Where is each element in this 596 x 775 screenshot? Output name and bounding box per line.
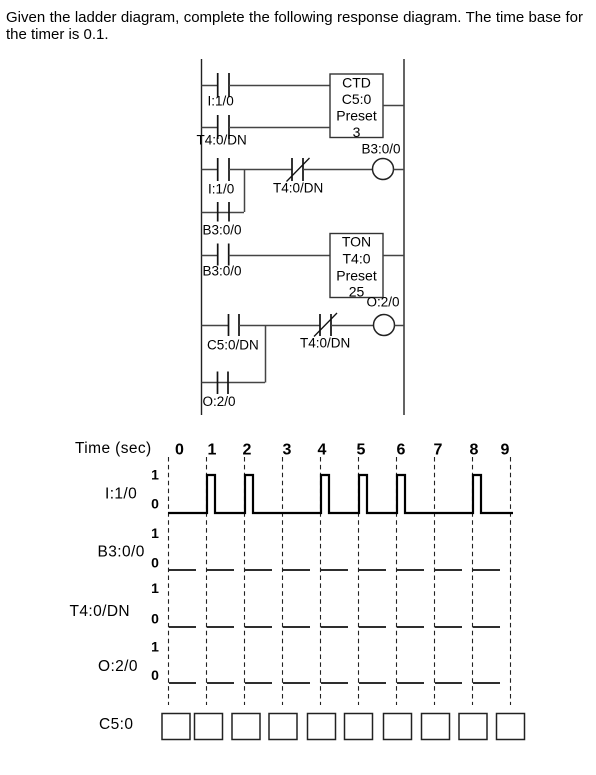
rung 1 wire left (202, 85, 218, 87)
gridline t=5 (358, 457, 360, 705)
left power rail (201, 59, 203, 415)
svg-text:1: 1 (151, 639, 159, 655)
svg-text:8: 8 (470, 442, 479, 459)
svg-text:2: 2 (243, 442, 252, 459)
svg-text:O:2/0: O:2/0 (203, 394, 236, 409)
rung 3 wire left (202, 169, 218, 171)
instruction paragraph (6, 10, 583, 43)
gridline t=1 (206, 457, 208, 705)
svg-text:O:2/0: O:2/0 (367, 295, 400, 310)
rung 2 wire left (202, 127, 218, 129)
counter CTD C5:0 box (330, 74, 383, 140)
svg-text:0: 0 (151, 667, 159, 683)
answer box C5:0 t=8 (459, 714, 487, 740)
svg-text:T4:0/DN: T4:0/DN (273, 181, 323, 196)
time number 7 (434, 442, 443, 459)
label B3:0/0 (coil rung 3) (362, 142, 401, 157)
label C5:0/DN (rung 5) (207, 338, 259, 353)
label O:2/0 (rung 5 branch) (203, 394, 236, 409)
svg-text:1: 1 (151, 525, 159, 541)
contact I:1/0 (rung 1) (218, 73, 229, 97)
svg-text:0: 0 (151, 555, 159, 571)
label B3:0/0 (rung 4) (203, 264, 242, 279)
NC contact T4:0/DN (rung 5) (314, 313, 337, 337)
svg-text:T4:0/DN: T4:0/DN (300, 336, 350, 351)
contact I:1/0 (rung 3) (218, 158, 229, 181)
answer box C5:0 t=3 (269, 714, 297, 740)
svg-text:5: 5 (357, 442, 366, 459)
rung 1 wire to CTD (229, 85, 330, 87)
svg-text:3: 3 (283, 442, 292, 459)
gridline t=4 (320, 457, 322, 705)
rung 3 branch vertical (244, 169, 246, 212)
signal name O:2/0 (98, 658, 138, 675)
level label 0 (O:2/0) (151, 667, 159, 683)
level label 1 (O:2/0) (151, 639, 159, 655)
level label 1 (B3:0/0) (151, 525, 159, 541)
rung 4 wire to TON (229, 255, 330, 257)
rung 5 wire middle (239, 325, 320, 327)
svg-text:C5:0: C5:0 (342, 91, 372, 107)
label I:1/0 (rung 1) (208, 94, 234, 109)
label O:2/0 (coil rung 5) (367, 295, 400, 310)
time number 8 (470, 442, 479, 459)
svg-text:6: 6 (397, 442, 406, 459)
svg-text:1: 1 (208, 442, 217, 459)
rung 5 wire left (202, 325, 229, 327)
svg-text:1: 1 (151, 580, 159, 596)
signal name I:1/0 (105, 486, 137, 503)
time number 9 (501, 442, 510, 459)
svg-text:0: 0 (151, 611, 159, 627)
time number 6 (397, 442, 406, 459)
CTD output wire (383, 105, 404, 107)
rung 5 wire coil to rail (395, 325, 405, 327)
level label 0 (T4:0/DN) (151, 611, 159, 627)
gridline t=6 (396, 457, 398, 705)
level label 0 (I:1/0) (151, 496, 159, 512)
time axis label (75, 440, 152, 457)
label T4:0/DN (rung 5) (300, 336, 350, 351)
answer line O:2/0 (dashed 0 level) (169, 682, 500, 684)
svg-text:CTD: CTD (342, 75, 371, 91)
time number 0 (175, 442, 184, 459)
gridline t=8 (472, 457, 474, 705)
level label 0 (B3:0/0) (151, 555, 159, 571)
rung 3 wire to coil (303, 169, 373, 171)
svg-text:Preset: Preset (336, 108, 377, 124)
label I:1/0 (rung 3) (208, 182, 234, 197)
svg-text:7: 7 (434, 442, 443, 459)
answer box C5:0 t=4 (308, 714, 336, 740)
gridline t=2 (244, 457, 246, 705)
svg-text:T4:0/DN: T4:0/DN (197, 133, 247, 148)
gridline t=3 (282, 457, 284, 705)
svg-text:C5:0/DN: C5:0/DN (207, 338, 259, 353)
contact C5:0/DN (rung 5) (229, 314, 240, 336)
contact T4:0/DN (rung 2) (218, 115, 229, 139)
right power rail (403, 59, 405, 415)
svg-text:1: 1 (151, 467, 159, 483)
contact B3:0/0 (rung 3 branch) (218, 202, 229, 222)
svg-text:TON: TON (342, 234, 371, 250)
label T4:0/DN (rung 3) (273, 181, 323, 196)
time number 4 (318, 442, 327, 459)
svg-text:Time (sec): Time (sec) (75, 440, 152, 457)
NC contact T4:0/DN (rung 3) (287, 158, 310, 182)
svg-text:B3:0/0: B3:0/0 (203, 264, 242, 279)
rung 3 wire middle (229, 169, 292, 171)
time number 1 (208, 442, 217, 459)
label T4:0/DN (rung 2) (197, 133, 247, 148)
level label 1 (T4:0/DN) (151, 580, 159, 596)
svg-text:B3:0/0: B3:0/0 (203, 223, 242, 238)
svg-text:3: 3 (353, 124, 361, 140)
signal name B3:0/0 (98, 544, 145, 561)
svg-text:B3:0/0: B3:0/0 (98, 544, 145, 561)
gridline t=7 (434, 457, 436, 705)
contact O:2/0 (rung 5 branch) (218, 372, 229, 395)
rung 2 wire to CTD (229, 127, 330, 129)
rung 5 wire to coil (331, 325, 374, 327)
label B3:0/0 (rung 3 branch) (203, 223, 242, 238)
rung 5 branch vertical (265, 325, 267, 383)
svg-text:T4:0/DN: T4:0/DN (70, 603, 131, 620)
svg-text:C5:0: C5:0 (99, 716, 133, 733)
answer box C5:0 t=2 (232, 714, 260, 740)
svg-text:4: 4 (318, 442, 327, 459)
time number 5 (357, 442, 366, 459)
signal name C5:0 (99, 716, 133, 733)
gridline t=9 (510, 457, 512, 705)
answer line T4:0/DN (dashed 0 level) (169, 626, 500, 628)
coil O:2/0 (374, 315, 395, 336)
svg-text:I:1/0: I:1/0 (208, 182, 234, 197)
coil B3:0/0 (373, 159, 394, 180)
TON output wire (383, 255, 404, 257)
answer box C5:0 t=0 (162, 714, 190, 740)
rung 4 wire left (202, 255, 218, 257)
svg-text:0: 0 (151, 496, 159, 512)
svg-text:O:2/0: O:2/0 (98, 658, 138, 675)
time number 3 (283, 442, 292, 459)
answer box C5:0 t=1 (195, 714, 223, 740)
timer TON T4:0 box (330, 234, 383, 300)
answer box C5:0 t=6 (384, 714, 412, 740)
waveform I:1/0 (168, 475, 513, 513)
svg-text:0: 0 (175, 442, 184, 459)
svg-text:B3:0/0: B3:0/0 (362, 142, 401, 157)
svg-text:I:1/0: I:1/0 (208, 94, 234, 109)
answer box C5:0 t=5 (345, 714, 373, 740)
svg-text:25: 25 (349, 284, 365, 300)
svg-text:T4:0: T4:0 (342, 251, 370, 267)
svg-text:Preset: Preset (336, 268, 377, 284)
time number 2 (243, 442, 252, 459)
rung 3 branch wire (202, 212, 245, 214)
answer box C5:0 t=9 (497, 714, 525, 740)
signal name T4:0/DN (70, 603, 131, 620)
level label 1 (I:1/0) (151, 467, 159, 483)
answer line B3:0/0 (dashed 0 level) (169, 569, 500, 571)
contact B3:0/0 (rung 4) (218, 244, 229, 266)
svg-text:I:1/0: I:1/0 (105, 486, 137, 503)
gridline t=0 (168, 457, 170, 705)
rung 3 wire coil to rail (394, 169, 405, 171)
rung 5 branch wire (202, 382, 266, 384)
answer box C5:0 t=7 (422, 714, 450, 740)
svg-text:9: 9 (501, 442, 510, 459)
